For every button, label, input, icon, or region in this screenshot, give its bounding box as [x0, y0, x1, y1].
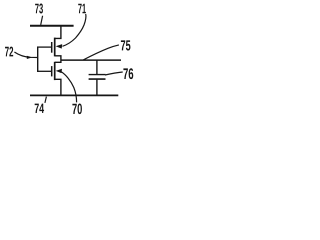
transistor Q2 (NMOS, pointed by 70): gate bar	[51, 66, 53, 76]
wire: Q2 drain arm to output node	[55, 61, 61, 63]
label 70	[72, 104, 82, 115]
label 74	[35, 104, 44, 113]
wire: Q1 gate lead	[37, 46, 52, 48]
label 71	[78, 4, 86, 14]
label 76	[123, 68, 133, 79]
wire: bottom rail (node 74)	[30, 94, 118, 96]
leader curve from label 70 to Q2	[61, 72, 76, 103]
transistor Q2 channel bar	[54, 62, 56, 80]
transistor Q1 (PMOS, pointed by 71): channel bar	[54, 38, 56, 57]
transistor Q1 gate bar	[51, 42, 53, 53]
label 72	[5, 47, 13, 57]
wire: PMOS drain from rail	[55, 26, 61, 38]
leader curve from label 71 to Q1	[62, 14, 86, 46]
wire: Q2 gate lead	[37, 70, 52, 72]
arrowhead of leader 71 (points left at Q1)	[56, 44, 63, 49]
leader curve from output line to label 75	[83, 45, 119, 60]
wire: Q2 source down to bottom rail	[55, 79, 61, 96]
wire: Q1 source arm to output node	[55, 56, 61, 61]
leader curve from capacitor to label 76	[105, 72, 123, 75]
leader tick for label 74	[45, 97, 47, 103]
arrowhead of leader 70 (points left at Q2)	[56, 69, 62, 73]
label 73	[35, 4, 43, 14]
capacitor C1 top plate	[89, 74, 106, 76]
wire: output node line (node 75)	[61, 59, 121, 61]
leader tick for label 73	[41, 16, 43, 25]
wire: top supply rail (node 73)	[30, 25, 74, 27]
arrowhead of leader 72 (points right at gate bus)	[27, 56, 33, 59]
leader curve from label 72 to gate bus	[14, 52, 37, 58]
label 75	[121, 40, 131, 50]
capacitor C1 bottom plate	[89, 78, 106, 80]
capacitor C1 bottom lead	[96, 80, 98, 96]
wire: gate bus vertical (node 72)	[37, 47, 39, 72]
capacitor C1 (76): top lead	[96, 60, 98, 74]
